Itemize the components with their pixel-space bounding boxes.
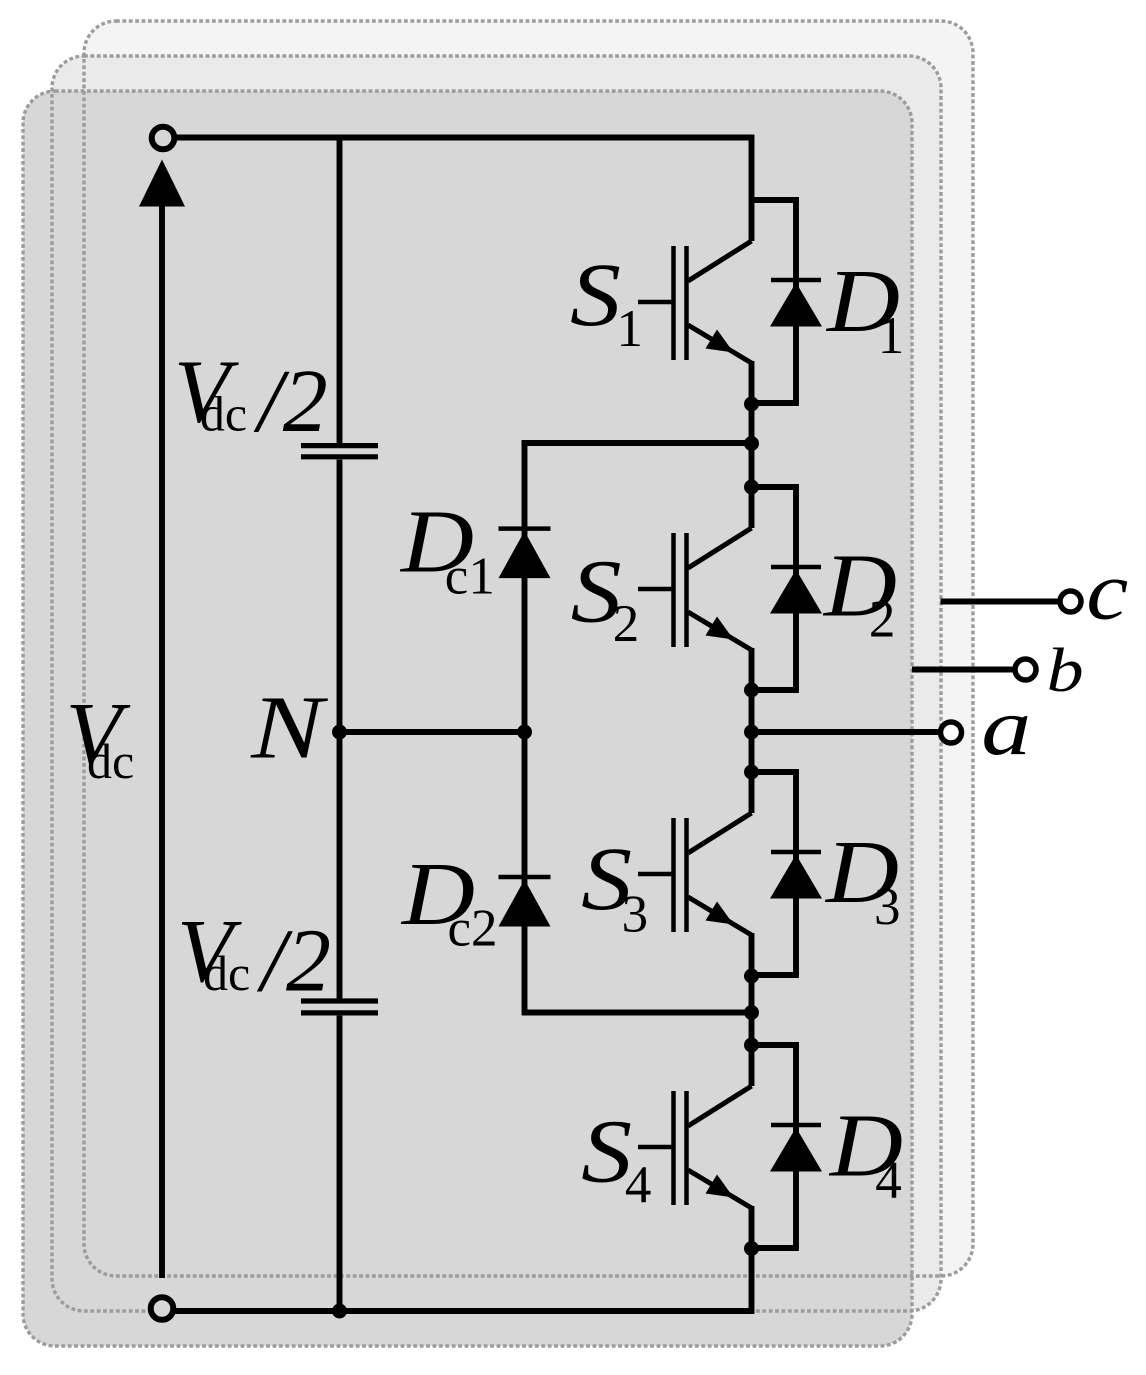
svg-text:3: 3 bbox=[874, 878, 901, 936]
svg-text:c2: c2 bbox=[448, 899, 498, 957]
svg-text:/2: /2 bbox=[253, 352, 328, 451]
svg-text:4: 4 bbox=[625, 1156, 652, 1214]
svg-text:c: c bbox=[1086, 544, 1128, 636]
svg-text:dc: dc bbox=[200, 386, 247, 442]
svg-text:S: S bbox=[570, 246, 621, 345]
svg-text:1: 1 bbox=[878, 307, 905, 365]
svg-text:2: 2 bbox=[613, 595, 640, 653]
svg-text:4: 4 bbox=[875, 1151, 902, 1209]
svg-text:a: a bbox=[981, 681, 1031, 772]
svg-text:b: b bbox=[1047, 637, 1084, 705]
svg-text:c1: c1 bbox=[445, 547, 495, 605]
svg-text:2: 2 bbox=[869, 591, 896, 649]
svg-text:dc: dc bbox=[87, 733, 134, 789]
svg-text:N: N bbox=[250, 678, 329, 777]
svg-text:/2: /2 bbox=[256, 912, 331, 1011]
svg-text:3: 3 bbox=[622, 886, 649, 944]
svg-text:1: 1 bbox=[617, 300, 644, 358]
svg-text:dc: dc bbox=[203, 945, 250, 1001]
